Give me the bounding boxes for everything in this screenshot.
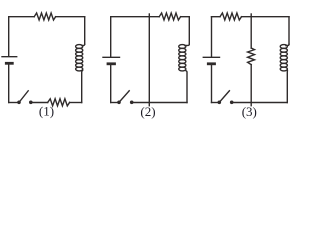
wire top-left stub (circuit 3) (212, 16, 221, 18)
battery (circuit 1) negative plate (6, 62, 12, 65)
wire right vertical upper (circuit 2) (188, 17, 190, 45)
wire left vertical upper (circuit 1) (8, 17, 10, 56)
resistor middle vertical (circuit 3) (248, 48, 255, 65)
wire left vertical lower (circuit 1) (8, 65, 10, 103)
svg-text:(3): (3) (242, 104, 257, 119)
wire right vertical lower (circuit 1) (82, 70, 83, 102)
resistor bottom (circuit 1) (48, 99, 70, 106)
svg-text:(2): (2) (140, 104, 155, 119)
wire right vertical lower (circuit 3) (286, 70, 288, 102)
svg-text:(1): (1) (39, 104, 54, 119)
wire top segment right (circuit 2) (181, 16, 190, 18)
switch lever (circuit 2) (119, 91, 129, 102)
inductor coil (circuit 2) (179, 44, 190, 71)
inductor coil (circuit 1) (76, 44, 85, 71)
battery (circuit 3) negative plate (208, 62, 214, 65)
switch contact dot right (circuit 1) (29, 101, 33, 105)
wire middle branch lower (circuit 3) (250, 65, 252, 106)
switch contact dot left (circuit 1) (17, 101, 21, 105)
wire bottom-left segment (circuit 2) (111, 102, 119, 104)
wire middle branch (circuit 2) (148, 14, 150, 106)
wire bottom middle segment (circuit 1) (32, 102, 48, 104)
wire top segment left (circuit 2) (111, 16, 160, 18)
wire left vertical upper (circuit 3) (211, 17, 213, 57)
wire right vertical upper (circuit 3) (288, 17, 290, 45)
battery (circuit 1) positive plate (2, 56, 17, 58)
wire left vertical lower (circuit 2) (110, 65, 112, 102)
inductor coil (circuit 3) (280, 44, 289, 71)
switch contact dot right (circuit 2) (130, 101, 134, 105)
switch contact dot left (circuit 2) (117, 101, 121, 105)
wire middle branch upper (circuit 3) (250, 14, 252, 48)
resistor top (circuit 2) (159, 13, 180, 20)
wire right vertical lower (circuit 2) (186, 70, 187, 102)
battery (circuit 2) positive plate (103, 56, 120, 58)
switch lever (circuit 1) (19, 91, 28, 102)
battery (circuit 2) negative plate (108, 62, 115, 65)
wire top-left segment (circuit 1) (9, 16, 35, 18)
switch lever (circuit 3) (220, 91, 230, 102)
wire bottom-right segment (circuit 1) (70, 102, 82, 104)
wire bottom segment right (circuit 3) (233, 102, 287, 104)
wire top-right segment (circuit 1) (56, 16, 85, 18)
wire top segment right (circuit 3) (242, 16, 290, 18)
wire bottom-left segment (circuit 3) (212, 102, 219, 104)
wire bottom-left segment (circuit 1) (9, 102, 19, 104)
resistor top (circuit 3) (220, 13, 242, 20)
wire right vertical upper (circuit 1) (84, 17, 86, 45)
wire left vertical upper (circuit 2) (110, 17, 112, 57)
switch contact dot left (circuit 3) (218, 101, 222, 105)
wire left vertical lower (circuit 3) (211, 65, 213, 102)
battery (circuit 3) positive plate (203, 56, 219, 58)
resistor top (circuit 1) (34, 13, 55, 20)
wire bottom segment right (circuit 2) (133, 102, 187, 104)
switch contact dot right (circuit 3) (230, 101, 234, 105)
